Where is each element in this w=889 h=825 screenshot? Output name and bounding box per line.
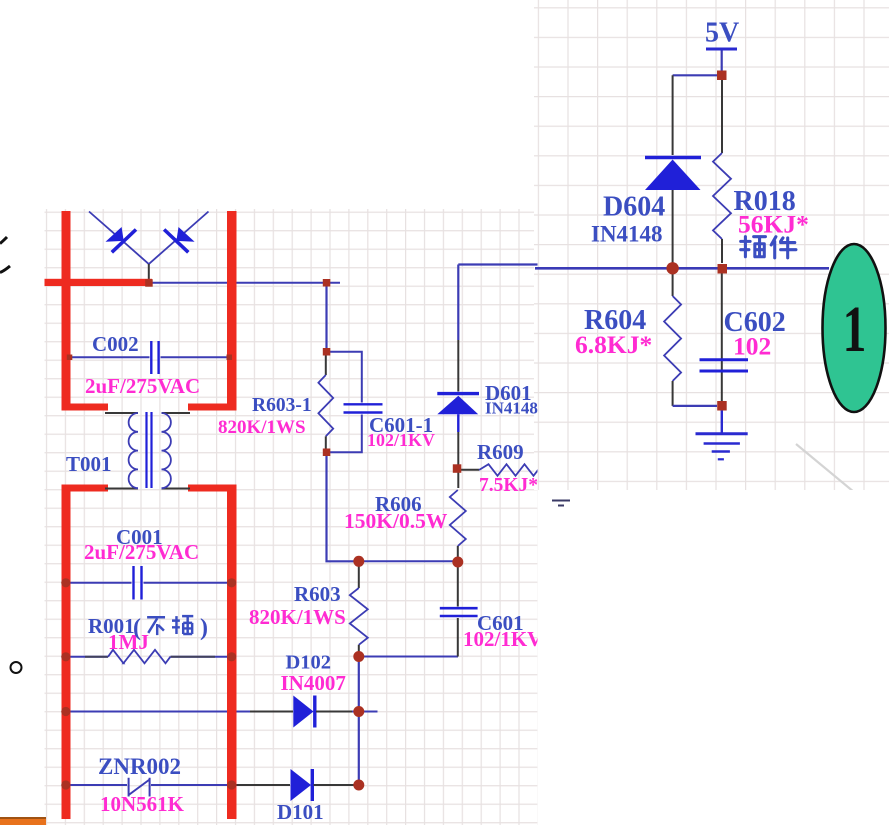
svg-text:102/1KV: 102/1KV (463, 627, 542, 651)
svg-text:2uF/275VAC: 2uF/275VAC (85, 374, 200, 398)
svg-text:7.5KJ*: 7.5KJ* (479, 475, 538, 496)
svg-text:820K/1WS: 820K/1WS (249, 605, 346, 629)
svg-text:2uF/275VAC: 2uF/275VAC (84, 540, 199, 564)
svg-text:1: 1 (843, 294, 867, 366)
svg-text:56KJ*: 56KJ* (738, 210, 809, 239)
svg-text:C002: C002 (92, 332, 139, 356)
svg-text:102: 102 (733, 332, 771, 361)
svg-text:5V: 5V (705, 18, 739, 49)
svg-text:10N561K: 10N561K (100, 792, 185, 816)
svg-text:1MJ: 1MJ (108, 630, 149, 654)
svg-text:820K/1WS: 820K/1WS (218, 417, 306, 438)
svg-text:150K/0.5W: 150K/0.5W (344, 509, 448, 533)
svg-text:102/1KV: 102/1KV (367, 430, 435, 450)
svg-text:): ) (200, 615, 208, 641)
svg-text:IN4007: IN4007 (281, 671, 346, 695)
svg-text:D604: D604 (603, 192, 665, 223)
svg-text:R603: R603 (294, 582, 341, 606)
svg-text:ZNR002: ZNR002 (98, 754, 181, 779)
svg-text:6.8KJ*: 6.8KJ* (575, 330, 652, 359)
svg-text:D101: D101 (277, 800, 324, 824)
svg-text:R603-1: R603-1 (252, 395, 312, 416)
svg-text:IN4148: IN4148 (591, 222, 663, 247)
svg-text:R609: R609 (477, 440, 524, 464)
svg-text:T001: T001 (66, 452, 112, 476)
svg-text:(: ( (133, 615, 141, 641)
svg-text:IN4148: IN4148 (485, 399, 538, 418)
